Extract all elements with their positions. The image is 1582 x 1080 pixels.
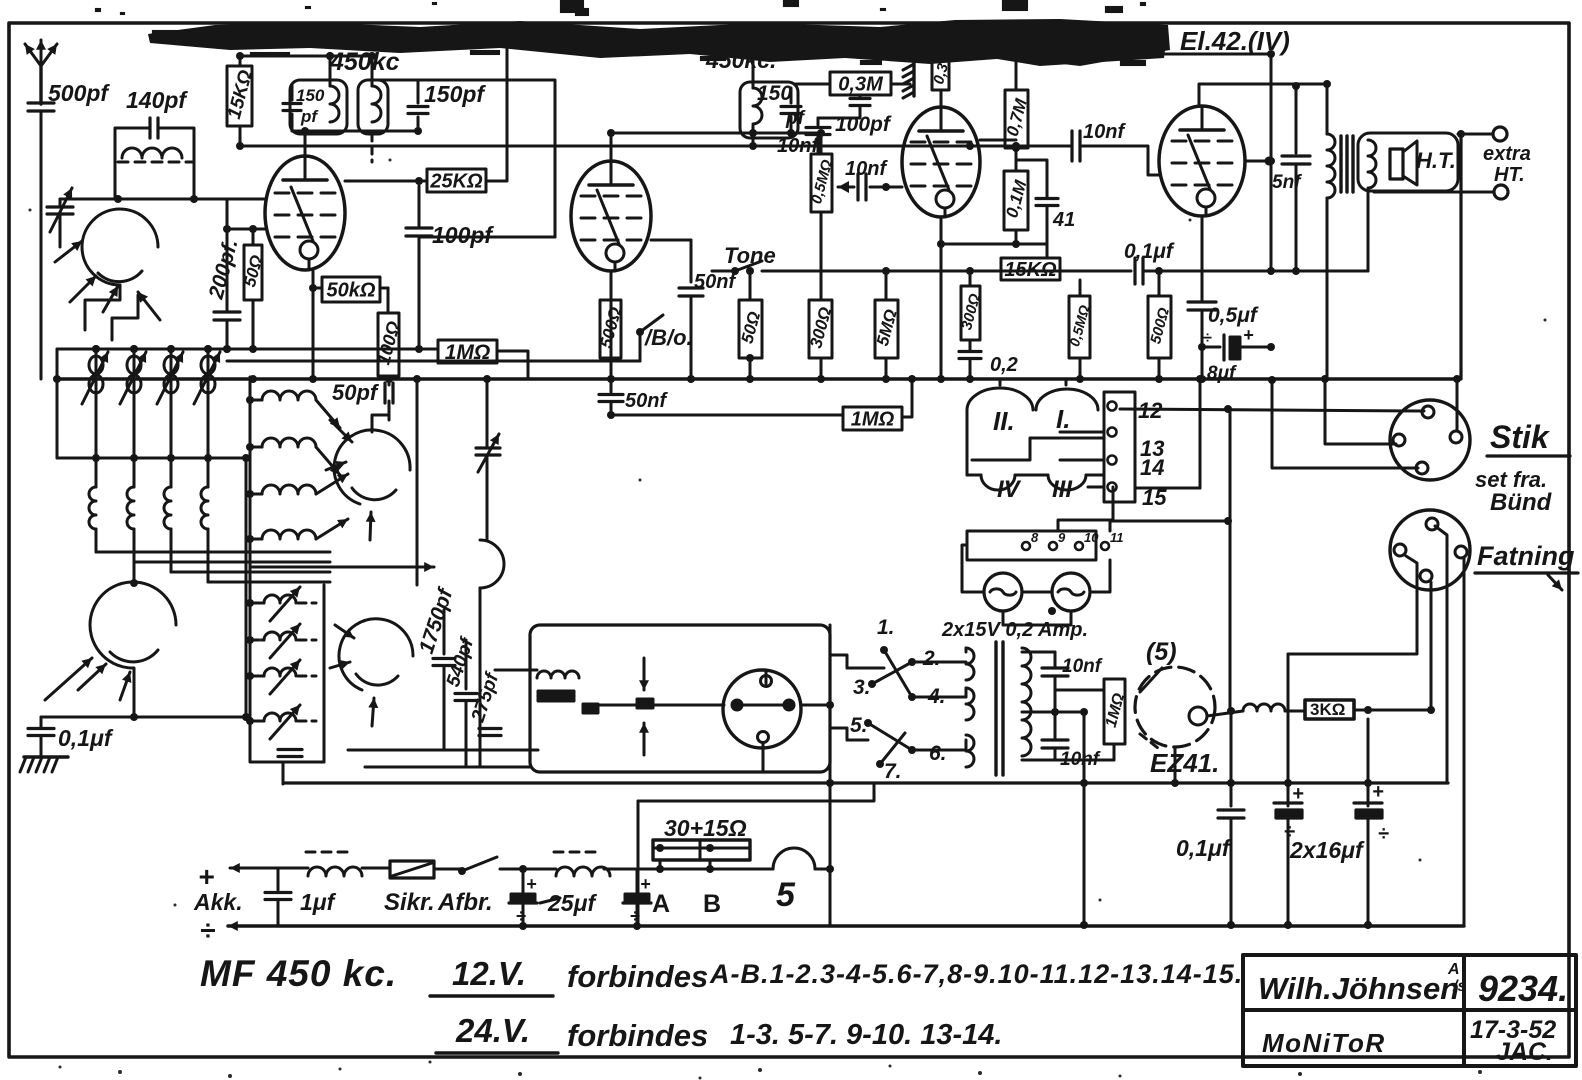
additional bus junction dots xyxy=(687,375,695,383)
wire mixer M1 right to V1 (stepped) xyxy=(85,285,120,330)
inner link line xyxy=(972,438,1104,460)
wire block to bus xyxy=(999,379,1002,385)
output transformer primary xyxy=(1327,134,1335,198)
dial lamp 2 xyxy=(1052,573,1090,611)
resistor 50Ω osc grid (rotated) xyxy=(244,245,262,300)
svg-text:II.: II. xyxy=(993,406,1015,436)
resistor 0,3M box xyxy=(830,72,891,95)
padder coil row 1 xyxy=(250,602,264,605)
svg-text:0,2: 0,2 xyxy=(990,354,1018,376)
resistor 5MΩ (rotated) xyxy=(875,300,898,358)
wire antenna down left side xyxy=(40,111,43,379)
IF transformer can 3 xyxy=(740,82,798,138)
fuse Sikr. xyxy=(390,861,434,878)
svg-text:24.V.: 24.V. xyxy=(455,1012,530,1049)
electrolytic 2x16uf #1 xyxy=(1287,654,1290,806)
tube V1 diagonal electrode xyxy=(291,187,313,241)
bottom return bus xyxy=(228,924,1464,927)
padder trimmer arrow 4 xyxy=(270,705,300,739)
svg-text:10nf: 10nf xyxy=(845,158,888,180)
svg-text:14: 14 xyxy=(1140,455,1164,480)
wire IF2 top link xyxy=(370,79,418,82)
wire top rail y56 xyxy=(240,55,372,58)
wire 140pf frame xyxy=(115,128,194,160)
transformer core lines xyxy=(994,642,997,775)
vibrator circle xyxy=(723,670,801,748)
resistor 500Ω (rotated) xyxy=(600,300,621,358)
tube V3 envelope xyxy=(902,107,980,217)
tube V4 envelope xyxy=(1159,106,1245,216)
svg-text:140pf: 140pf xyxy=(126,87,188,113)
wire vibrator to transformer xyxy=(801,704,830,707)
padder semicircle xyxy=(480,540,504,588)
svg-text:H.T.: H.T. xyxy=(1416,148,1456,173)
tube V2 envelope xyxy=(571,161,651,271)
svg-text:/s: /s xyxy=(1452,978,1466,995)
capacitor 10nf coupling (V3 to V4) xyxy=(1069,145,1072,148)
trimmer capacitor with arrow (antenna) xyxy=(47,205,73,208)
coil row 2 xyxy=(250,446,262,449)
tone line continues xyxy=(1143,270,1368,273)
underline for 24.V. xyxy=(436,1051,558,1054)
vibrator contact blobs xyxy=(538,691,574,701)
bandswitch trimmer column 1 xyxy=(95,349,98,458)
tube V3 diagonal electrode xyxy=(927,136,949,190)
capacitor 10nf (rectifier bottom) xyxy=(1054,712,1057,738)
wire top rail to 1271 xyxy=(1164,54,1271,271)
wire right side of bank to coil box xyxy=(245,458,248,717)
dial lamp 1 xyxy=(984,573,1022,611)
svg-text:2x15V 0,2 Amp.: 2x15V 0,2 Amp. xyxy=(941,619,1088,641)
svg-text:50kΩ: 50kΩ xyxy=(327,280,376,302)
padder coil row 2 xyxy=(250,639,264,642)
filter capacitor 0,1uf xyxy=(1230,711,1233,806)
tap 5 hump xyxy=(773,848,815,869)
svg-text:5nf: 5nf xyxy=(1272,172,1302,193)
input filter coil xyxy=(308,867,362,876)
svg-text:HT.: HT. xyxy=(1494,164,1525,186)
vibrator inner contacts xyxy=(761,676,772,687)
capacitor 0,3 anode box (rotated) xyxy=(932,60,949,90)
resistor 50Ω tone (rotated) xyxy=(739,300,762,358)
resistor 500Ω output cathode (rotated) xyxy=(1148,296,1171,358)
svg-text:(5): (5) xyxy=(1146,638,1177,666)
bottom cap of coil box xyxy=(278,748,302,751)
wire speaker return xyxy=(1367,192,1370,271)
tube V1 cathode xyxy=(300,241,318,259)
padder coil row 4 xyxy=(250,720,264,723)
connector Fatning circle xyxy=(1390,510,1470,590)
tube V2 diagonal electrode xyxy=(597,190,619,244)
padder trimmer arrow 1 xyxy=(270,587,300,621)
IF3 capacitor 150pf xyxy=(781,105,801,108)
wire V4 cathode down xyxy=(1201,216,1204,300)
wire to node xyxy=(500,868,556,871)
arrow from coil row 1 xyxy=(316,400,340,428)
wire choke to 3K xyxy=(1285,710,1305,713)
tube V4 diagonal electrode xyxy=(1188,135,1210,189)
svg-text:+: + xyxy=(1243,325,1254,345)
resistor 25KΩ box xyxy=(427,169,486,192)
chassis hatch (V3 grid leak) xyxy=(912,62,915,96)
title block divider lines xyxy=(1243,1008,1576,1012)
vibrator stem xyxy=(765,672,768,686)
tube V3 grids xyxy=(911,141,971,144)
scanner ink smudge band across top xyxy=(148,19,1170,66)
resistor 300Ω (rotated) xyxy=(809,300,832,358)
svg-text:Fatning: Fatning xyxy=(1477,541,1575,571)
resistor 1MΩ box (AVC) xyxy=(843,407,902,430)
wire V1 cathode down xyxy=(312,270,315,379)
secondary taps to rectifier xyxy=(1022,651,1046,654)
antenna coil L1 xyxy=(122,148,182,158)
top rail under smudge xyxy=(460,39,1164,42)
svg-text:÷: ÷ xyxy=(1203,330,1212,347)
capacitor 50nf lower xyxy=(610,379,613,392)
svg-text:0,1μf: 0,1μf xyxy=(58,725,114,751)
capacitor 1uf xyxy=(277,868,280,890)
battery feed wire xyxy=(258,867,308,870)
padder coil row 3 xyxy=(250,675,264,678)
speaker driver xyxy=(1390,149,1403,179)
IF2 coil xyxy=(372,86,381,122)
svg-text:0,5μf: 0,5μf xyxy=(1208,304,1259,327)
svg-text:EZ41.: EZ41. xyxy=(1150,748,1219,778)
electrolytic 8uf xyxy=(1222,335,1225,360)
svg-text:forbindes: forbindes xyxy=(567,959,708,994)
switch B/O xyxy=(636,328,644,336)
wire pin 12 to stik xyxy=(1120,409,1424,411)
tube V3 anode bar xyxy=(919,129,963,133)
svg-text:1MΩ: 1MΩ xyxy=(851,409,895,431)
scanner noise speckles xyxy=(118,1070,122,1074)
wire 0,7M/0,1M node right xyxy=(1016,160,1047,197)
long vertical right feed xyxy=(1459,134,1462,379)
svg-text:A: A xyxy=(652,890,670,918)
arrow from coil row 2 xyxy=(316,447,340,475)
lamp pin 8 xyxy=(1022,542,1030,550)
resistor 15KΩ (rotated box) xyxy=(227,66,252,126)
svg-text:Akk.: Akk. xyxy=(193,889,243,915)
band coil 3 xyxy=(170,458,173,487)
svg-text:7.: 7. xyxy=(884,760,902,783)
HT feed from rectifier up to pin12 line xyxy=(1229,409,1232,711)
arrow from coil row 4 xyxy=(316,519,348,539)
capacitor 0,2 xyxy=(969,340,972,350)
EZ41 inner electrode xyxy=(1189,707,1207,725)
oscillator circle M3 xyxy=(339,619,413,690)
lamp wires xyxy=(962,545,984,592)
Fatning arrow xyxy=(1548,575,1562,590)
mixer section circle M1 xyxy=(82,209,158,285)
wire 0,3M left to IF3 xyxy=(796,83,830,86)
wire pin block to bus riser y488 xyxy=(1135,487,1200,490)
svg-text:10nf: 10nf xyxy=(1062,656,1103,677)
IF transformer can 1 xyxy=(290,80,347,134)
padder trimmer arrow 3 xyxy=(270,660,300,694)
svg-text:50nf: 50nf xyxy=(694,271,737,293)
wire IF3 to V2 grid xyxy=(611,132,791,135)
heater wire lamps to rectifier riser xyxy=(1110,521,1228,531)
second filter coil xyxy=(556,867,610,876)
svg-text:A: A xyxy=(1447,961,1460,978)
svg-text:pf: pf xyxy=(785,108,806,129)
svg-text:+: + xyxy=(640,874,651,894)
svg-text:500pf: 500pf xyxy=(48,80,110,106)
wire V1 screen to 25KΩ xyxy=(345,180,427,183)
band coil 2 xyxy=(133,458,136,487)
antenna symbol xyxy=(39,66,42,104)
chassis ground symbol xyxy=(24,755,68,758)
capacitor 10nf (V3 grid) xyxy=(817,118,820,125)
output transformer core xyxy=(1339,136,1342,192)
Stik pins xyxy=(1422,406,1434,418)
svg-text:Tone: Tone xyxy=(724,243,776,268)
output transformer secondary xyxy=(1368,140,1376,188)
wire arrow to padder semicircle xyxy=(250,566,434,569)
coil row 1 xyxy=(250,399,262,402)
capacitor 10nf (rectifier top) xyxy=(1046,651,1055,654)
heater line y361 xyxy=(227,360,640,363)
wire 0,5M bottom to tone line xyxy=(820,133,823,154)
svg-text:+: + xyxy=(526,874,537,894)
underline for 12.V. xyxy=(430,994,553,997)
transformer centre tap down xyxy=(1083,712,1086,925)
main HT bus y146 xyxy=(240,145,1070,148)
wire V2 screen to 50nf xyxy=(651,239,691,242)
padder trimmer arrow 2 xyxy=(270,624,300,658)
resistor 30+15Ω xyxy=(653,840,750,860)
wire primary bottom down xyxy=(1326,198,1329,379)
svg-text:12.V.: 12.V. xyxy=(452,955,526,992)
bandswitch trimmer column 2 xyxy=(133,349,136,458)
svg-text:2.: 2. xyxy=(922,647,941,670)
tube V2 cathode xyxy=(606,244,624,262)
svg-text:8: 8 xyxy=(1031,530,1039,545)
svg-text:10: 10 xyxy=(1084,530,1099,545)
wire 25K to top rail xyxy=(486,42,507,181)
oscillator circle OSC xyxy=(90,582,176,668)
main bus y379 xyxy=(57,377,1457,380)
svg-text:9: 9 xyxy=(1058,530,1066,545)
IF3 coil xyxy=(753,88,762,124)
resistor 1MΩ box (left) xyxy=(438,340,497,363)
lamp pin 11 xyxy=(1101,542,1109,550)
wire to stik left pin xyxy=(1325,379,1396,444)
arrows into oscillator xyxy=(45,658,92,700)
resistor 100Ω (rotated) xyxy=(378,313,399,376)
wire Stik bottom pin to 1272 riser xyxy=(1272,380,1418,468)
IF transformer can 2 xyxy=(358,80,388,134)
svg-text:41: 41 xyxy=(1052,209,1075,231)
svg-text:0,1μf: 0,1μf xyxy=(1176,835,1232,861)
capacitor 500pf antenna series xyxy=(28,101,54,104)
wire fatning bottom pin down xyxy=(1430,582,1433,710)
coil box frame wires xyxy=(115,160,194,199)
capacitor 50nf (screen) xyxy=(679,286,703,289)
EZ41 bottom stem xyxy=(1174,747,1177,783)
heater resistor box outline xyxy=(638,783,874,801)
resistor 50kΩ box xyxy=(322,277,380,302)
wire V2 plate link y80 xyxy=(370,80,555,237)
tube V4 cathode xyxy=(1197,189,1215,207)
svg-text:+: + xyxy=(198,861,214,892)
wire 3K to fatning xyxy=(1354,709,1431,712)
svg-text:Stik: Stik xyxy=(1490,419,1551,455)
junction dots on buses xyxy=(236,52,244,60)
wire band coil 2 to oscillator xyxy=(134,561,330,564)
wire EZ41 output xyxy=(1207,711,1243,716)
wire pin strip link xyxy=(1058,502,1113,531)
capacitor 0,5uf xyxy=(1188,300,1216,303)
wire 1M to bus corner xyxy=(497,351,528,379)
trimmer capacitor (osc tuning) xyxy=(476,446,500,449)
wire 8uf branch xyxy=(1202,346,1220,349)
wire node down to 15K xyxy=(1046,244,1049,258)
svg-text:1-3. 5-7. 9-10. 13-14.: 1-3. 5-7. 9-10. 13-14. xyxy=(730,1019,1002,1051)
svg-text:25KΩ: 25KΩ xyxy=(429,171,483,193)
svg-text:MF 450 kc.: MF 450 kc. xyxy=(200,953,397,994)
capacitor 100pf xyxy=(418,186,421,226)
wire band coil 4 to oscillator xyxy=(208,581,330,584)
svg-text:9234.: 9234. xyxy=(1478,968,1568,1009)
electrolytic 25uf pair xyxy=(522,869,525,893)
resistor 0,7M (rotated) xyxy=(1005,90,1028,148)
wire fatning left pin down xyxy=(1288,556,1417,654)
svg-text:÷: ÷ xyxy=(200,915,215,946)
resistor 3KΩ box xyxy=(1305,700,1354,719)
connector Stik circle xyxy=(1390,400,1470,480)
smudge dark right lobe xyxy=(930,24,1168,66)
svg-text:150: 150 xyxy=(296,86,325,105)
tube V1 envelope xyxy=(265,156,345,270)
wire oscillator bottom to 0,1uf xyxy=(133,560,136,583)
wire band coil 3 to oscillator xyxy=(171,571,330,574)
coil row 4 xyxy=(250,538,262,541)
svg-text:5: 5 xyxy=(776,876,796,914)
arrow from coil row 3 xyxy=(316,474,348,494)
tube V4 grids xyxy=(1172,140,1232,143)
capacitor 0,1uf to ground (bottom left) xyxy=(40,717,43,727)
bandswitch trimmer column 4 xyxy=(207,349,210,458)
tube V2 anode bar xyxy=(589,183,633,187)
capacitor 10nf series (V3 input) xyxy=(838,186,854,189)
svg-text:150: 150 xyxy=(757,82,792,105)
svg-text:8μf: 8μf xyxy=(1207,363,1237,384)
tube V3 cathode xyxy=(936,190,954,208)
wire vibrator armature line xyxy=(598,704,724,707)
extra HT terminals xyxy=(1493,127,1507,141)
svg-text:JAC.: JAC. xyxy=(1496,1038,1553,1066)
bandswitch trimmer column 3 xyxy=(170,349,173,458)
capacitor 41 (0,1M parallel) xyxy=(1036,197,1058,200)
svg-text:÷: ÷ xyxy=(1378,823,1389,845)
primary winding sections xyxy=(966,648,974,680)
capacitor 50pf xyxy=(383,383,386,403)
pin strip 12-15 xyxy=(1104,392,1135,502)
mixer circle M2 xyxy=(334,430,410,504)
wire fatning right pins down xyxy=(1435,526,1447,783)
svg-text:+: + xyxy=(1372,781,1384,803)
capacitor 200pf xyxy=(214,310,240,313)
wire V4 screen to 1271 xyxy=(1246,160,1271,163)
svg-text:3KΩ: 3KΩ xyxy=(1310,700,1345,719)
svg-text:11: 11 xyxy=(1110,530,1124,545)
capacitor 0,1uf (tone) xyxy=(1133,258,1136,284)
bus line y458 xyxy=(57,457,246,460)
switch Tone xyxy=(731,267,739,275)
wire IF1 to V1 xyxy=(291,114,294,131)
wire grid line y199 xyxy=(60,198,265,201)
wire V4 plate top xyxy=(1199,84,1327,106)
capacitor 140pf (tuned circuit) xyxy=(148,118,151,138)
IF2 capacitor 150pf xyxy=(408,105,428,108)
speaker box xyxy=(1358,133,1458,191)
svg-text:B: B xyxy=(703,890,721,918)
vibrator arrows and armature xyxy=(643,658,646,690)
svg-text:3.: 3. xyxy=(853,676,871,699)
battery plus arrow xyxy=(230,867,258,870)
svg-text:50pf: 50pf xyxy=(332,380,380,405)
wire V1 left y229 xyxy=(157,198,160,201)
svg-text:15KΩ: 15KΩ xyxy=(1004,259,1057,281)
rectifier tube EZ41 (dashed circle) xyxy=(1135,667,1215,747)
lamp pin 9 xyxy=(1049,542,1057,550)
svg-text:Bünd: Bünd xyxy=(1490,489,1553,516)
svg-text:A-B.1-2.3-4-5.6-7,8-9.10-11.12: A-B.1-2.3-4-5.6-7,8-9.10-11.12-13.14-15. xyxy=(709,959,1243,989)
switch Afbr. xyxy=(434,868,462,871)
lamp pin strip 8-11 xyxy=(967,531,1096,560)
switch cross wires lower xyxy=(868,723,912,750)
band coil 1 xyxy=(95,458,98,487)
wires to extra HT xyxy=(1458,133,1493,136)
svg-text:100pf: 100pf xyxy=(835,113,892,136)
svg-text:pf: pf xyxy=(300,107,319,126)
coil assembly box xyxy=(250,377,324,762)
wire into vibrator box xyxy=(495,669,537,672)
tube V1 anode bar xyxy=(283,178,327,182)
wire AVC line y415 xyxy=(611,414,843,417)
IF1 capacitor 150pf xyxy=(283,102,301,105)
tube V2 grids xyxy=(581,195,641,198)
svg-text:Afbr.: Afbr. xyxy=(437,889,493,916)
primary taps xyxy=(912,661,966,664)
svg-text:50nf: 50nf xyxy=(625,390,668,412)
resistor 1MΩ rectifier (rotated) xyxy=(1104,679,1125,744)
resistor 300Ω screen (rotated) xyxy=(961,286,980,340)
svg-text:450kc.: 450kc. xyxy=(705,47,776,73)
tone line y271 xyxy=(762,270,1131,273)
svg-text:extra: extra xyxy=(1483,143,1531,165)
svg-text:25μf: 25μf xyxy=(547,890,597,916)
resistor 0,5MΩ AF (rotated) xyxy=(1069,296,1090,358)
wire coupling to V4 grid xyxy=(1080,146,1160,175)
HT bus y783 xyxy=(283,781,1448,784)
switch cross wires upper xyxy=(884,650,912,697)
wire V2 cathode chain xyxy=(610,271,613,379)
arrows into mixer M1 xyxy=(55,241,82,262)
lamp pin 10 xyxy=(1075,542,1083,550)
arrows into M2 xyxy=(330,420,352,442)
svg-text:100pf: 100pf xyxy=(432,222,494,248)
electrolytic 2x16uf #2 xyxy=(1367,719,1370,806)
resistor 0,5MΩ (rotated) xyxy=(811,154,832,212)
svg-text:Wilh.Jöhnsen: Wilh.Jöhnsen xyxy=(1258,971,1459,1006)
capacitor 5nf xyxy=(1295,86,1298,153)
wire 1M AVC to bus xyxy=(902,379,912,417)
title block box xyxy=(1243,955,1576,1066)
svg-text:I.: I. xyxy=(1056,404,1070,434)
